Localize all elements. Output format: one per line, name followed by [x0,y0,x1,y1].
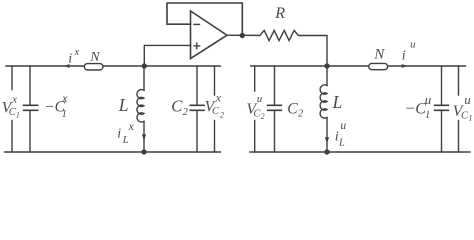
svg-text:u: u [410,39,416,51]
label -C_1^u [404,92,431,121]
wire right outer rail upper segment [254,66,256,91]
svg-text:x: x [215,90,222,104]
label i^x [68,47,79,66]
svg-text:L: L [338,138,345,149]
svg-text:2: 2 [298,109,304,120]
svg-text:R: R [274,5,285,22]
svg-text:1: 1 [16,111,20,120]
svg-text:N: N [89,50,100,65]
label V_C1^x [2,94,20,119]
capacitor C2 (left) [190,66,204,152]
svg-text:x: x [128,121,135,133]
node right top junction [324,63,329,68]
svg-text:x: x [11,94,17,105]
svg-text:1: 1 [62,109,67,120]
svg-text:u: u [340,120,346,132]
wire right circuit bottom rail [250,151,470,153]
svg-text:u: u [257,93,263,105]
wire right outer rail lower segment [254,121,256,153]
svg-text:i: i [68,52,72,67]
inductor L (left) [137,66,144,152]
svg-text:u: u [464,92,471,107]
capacitor C1 (right, negative) [435,66,449,152]
svg-text:C: C [212,106,220,117]
svg-text:i: i [117,126,121,141]
svg-text:−C: −C [404,101,426,118]
svg-text:x: x [61,93,68,105]
label N (right) [373,47,385,63]
two-port element N (left) [84,64,103,70]
capacitor C2 (right) [268,66,282,152]
svg-text:2: 2 [220,110,224,119]
label R [274,5,285,22]
two-port element N (right) [369,63,388,69]
svg-text:L: L [332,92,343,112]
label N (left) [89,50,100,65]
wire junction to op-amp + input [144,45,190,66]
wire feedback loop from output to inverting input [167,3,242,35]
arrow current i^x pointing left [63,64,69,68]
svg-text:C: C [287,100,298,117]
wire resistor to right circuit top [300,36,327,67]
svg-text:1: 1 [425,110,430,121]
svg-text:L: L [122,135,129,146]
op-amp U1 [191,11,228,59]
arrow current i_L^u pointing down [325,137,329,143]
label C_2 (left) [171,96,188,117]
wire op-amp output [227,34,258,36]
wire left circuit top rail [6,65,220,67]
svg-text:2: 2 [183,107,189,118]
wire left inner rail upper segment [214,66,216,95]
svg-text:u: u [425,92,432,107]
label -C_1^x [44,93,68,120]
label C_2 (right) [287,100,304,119]
label V_C2^x [205,90,224,119]
wire right inner rail lower segment [458,121,460,153]
wire left inner rail lower segment [214,121,216,153]
arrow current i_L^x pointing down [142,134,146,140]
svg-text:i: i [402,49,406,64]
wire left circuit bottom rail [5,151,221,153]
svg-text:C: C [171,96,183,115]
wire right inner rail upper segment [458,66,460,95]
svg-text:L: L [118,95,129,115]
svg-text:x: x [74,47,80,58]
label V_C1^u [453,92,473,123]
label V_C2^u [247,93,265,121]
wire right circuit top rail [251,65,466,67]
arrow current i^u pointing right [402,64,408,68]
svg-text:1: 1 [469,113,473,122]
svg-text:N: N [373,47,385,63]
node right bottom junction [324,149,329,154]
inductor L (right) [320,66,327,152]
label i_L^u [335,120,347,149]
svg-text:2: 2 [261,112,265,121]
resistor R [258,30,301,40]
node op-amp output junction [240,33,245,38]
label i_L^x [117,121,134,146]
label i^u [402,39,416,64]
label L (right) [332,92,343,112]
capacitor C1 (left, negative) [24,66,38,152]
node left bottom junction [141,149,146,154]
label L (left) [118,95,129,115]
wire left outer rail lower segment [11,121,13,153]
wire left outer rail upper segment [11,66,13,90]
node left top junction [142,63,147,68]
